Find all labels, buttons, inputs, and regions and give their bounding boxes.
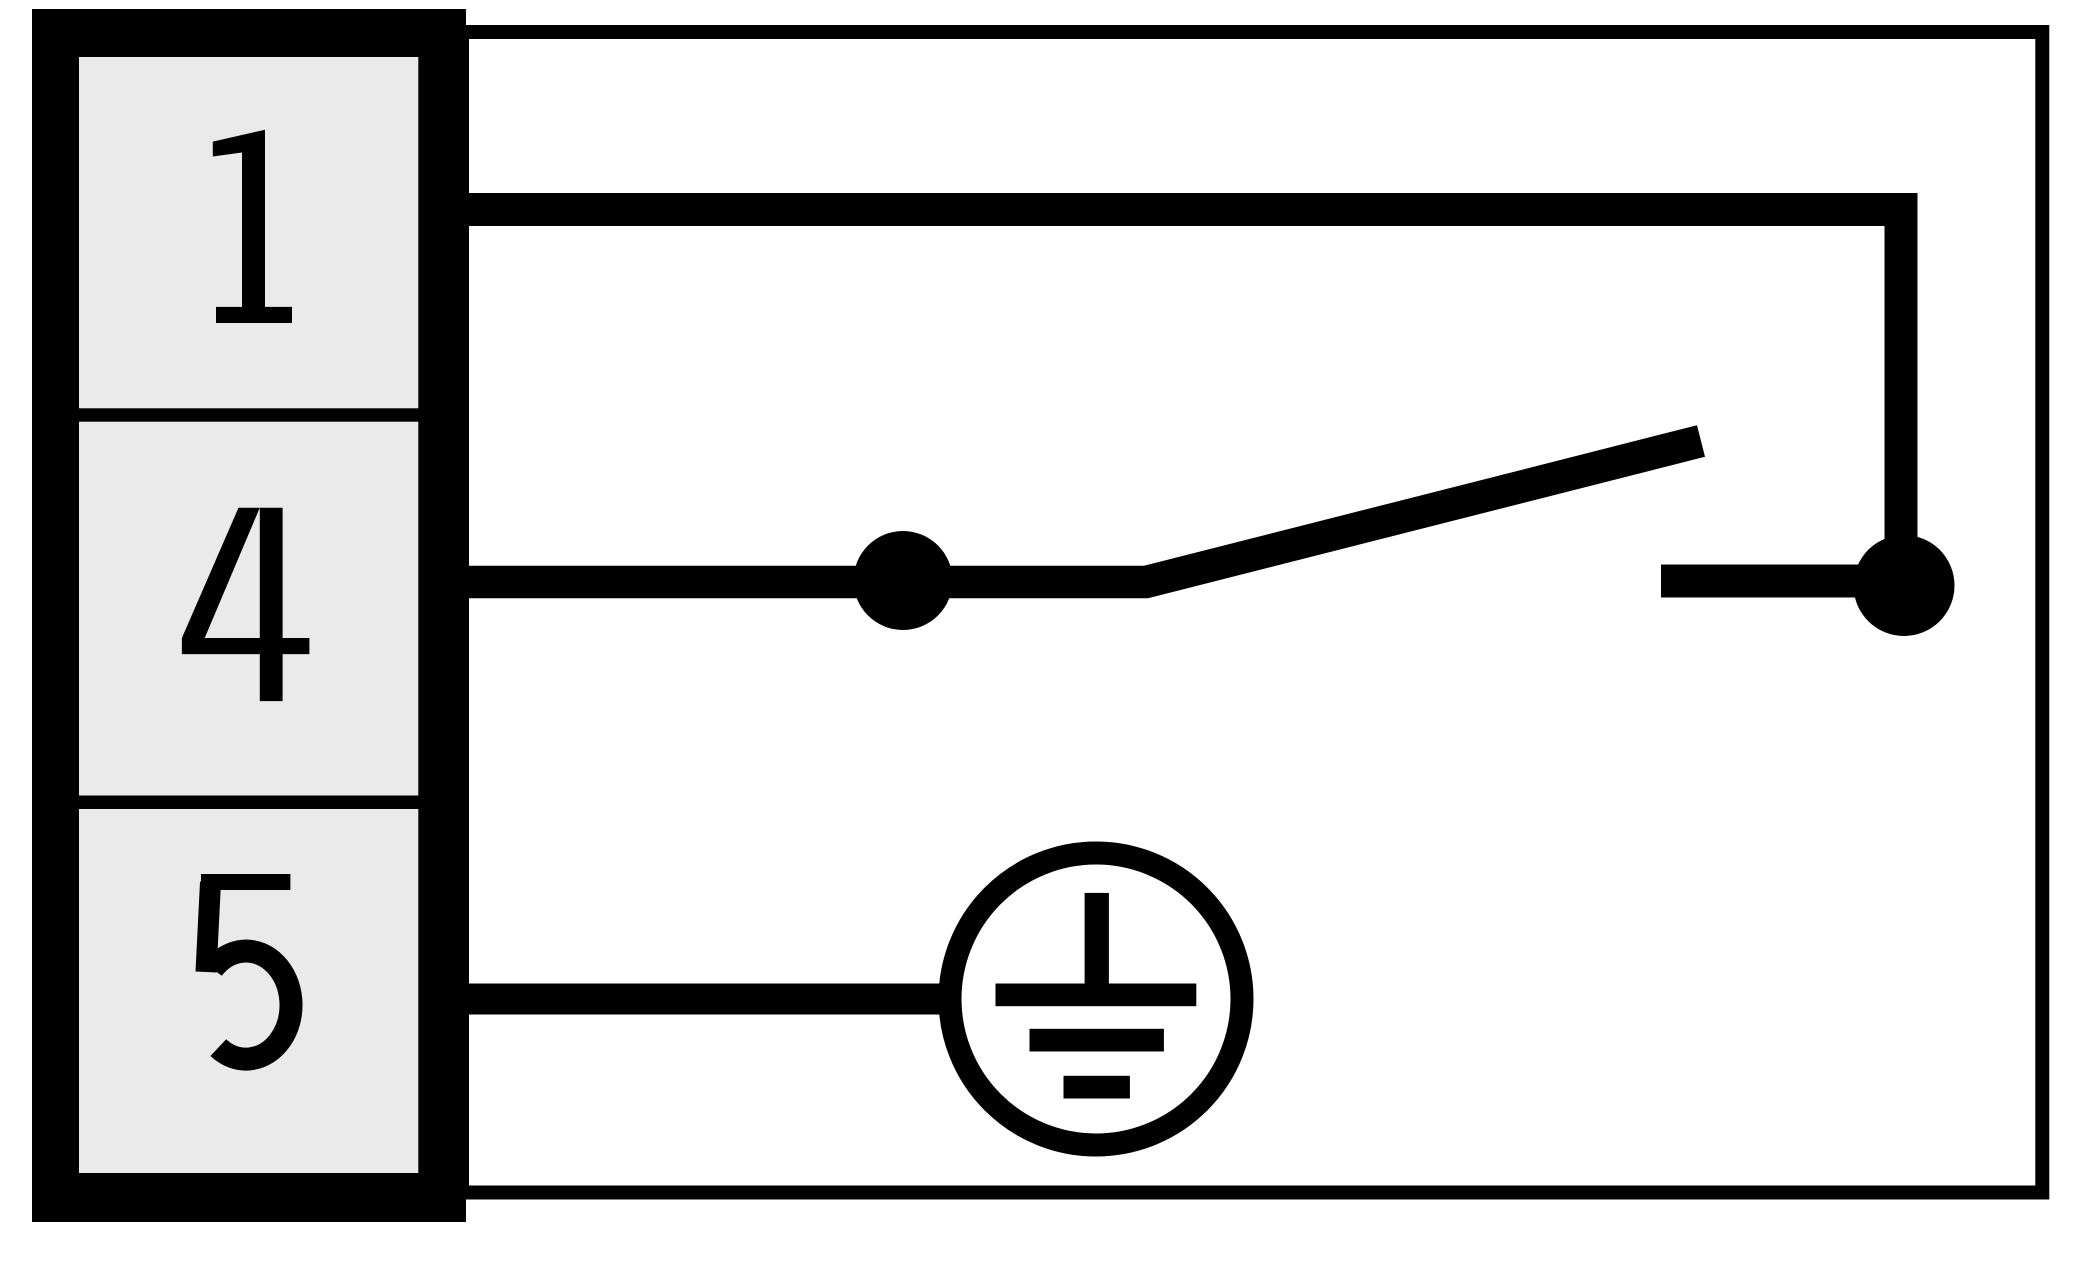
enclosure frame xyxy=(462,32,2042,1193)
pin label 4 xyxy=(182,508,310,701)
ground bar 1 xyxy=(996,984,1197,1007)
terminal cell 1 xyxy=(79,57,418,408)
terminal cell 5 xyxy=(79,809,418,1173)
wire pin 5 to earth xyxy=(460,984,950,1015)
pin label 5 xyxy=(201,882,291,1059)
ground bar 2 xyxy=(1030,1029,1164,1052)
connector J1 body xyxy=(32,9,466,1222)
pin label 1 xyxy=(213,130,292,323)
wire pin 4 and switch S1 blade (NO contact) xyxy=(460,441,1701,582)
wire pin 1 to switch common xyxy=(460,210,1901,561)
ground stem xyxy=(1085,893,1109,984)
node B (switch contact junction) xyxy=(1854,535,1955,636)
node A (switch pivot junction) xyxy=(854,531,953,630)
ground bar 3 xyxy=(1064,1076,1130,1099)
protective earth PE circle xyxy=(950,853,1242,1145)
terminal cell 4 xyxy=(79,422,418,796)
wire switch fixed contact stub xyxy=(1661,565,1904,598)
